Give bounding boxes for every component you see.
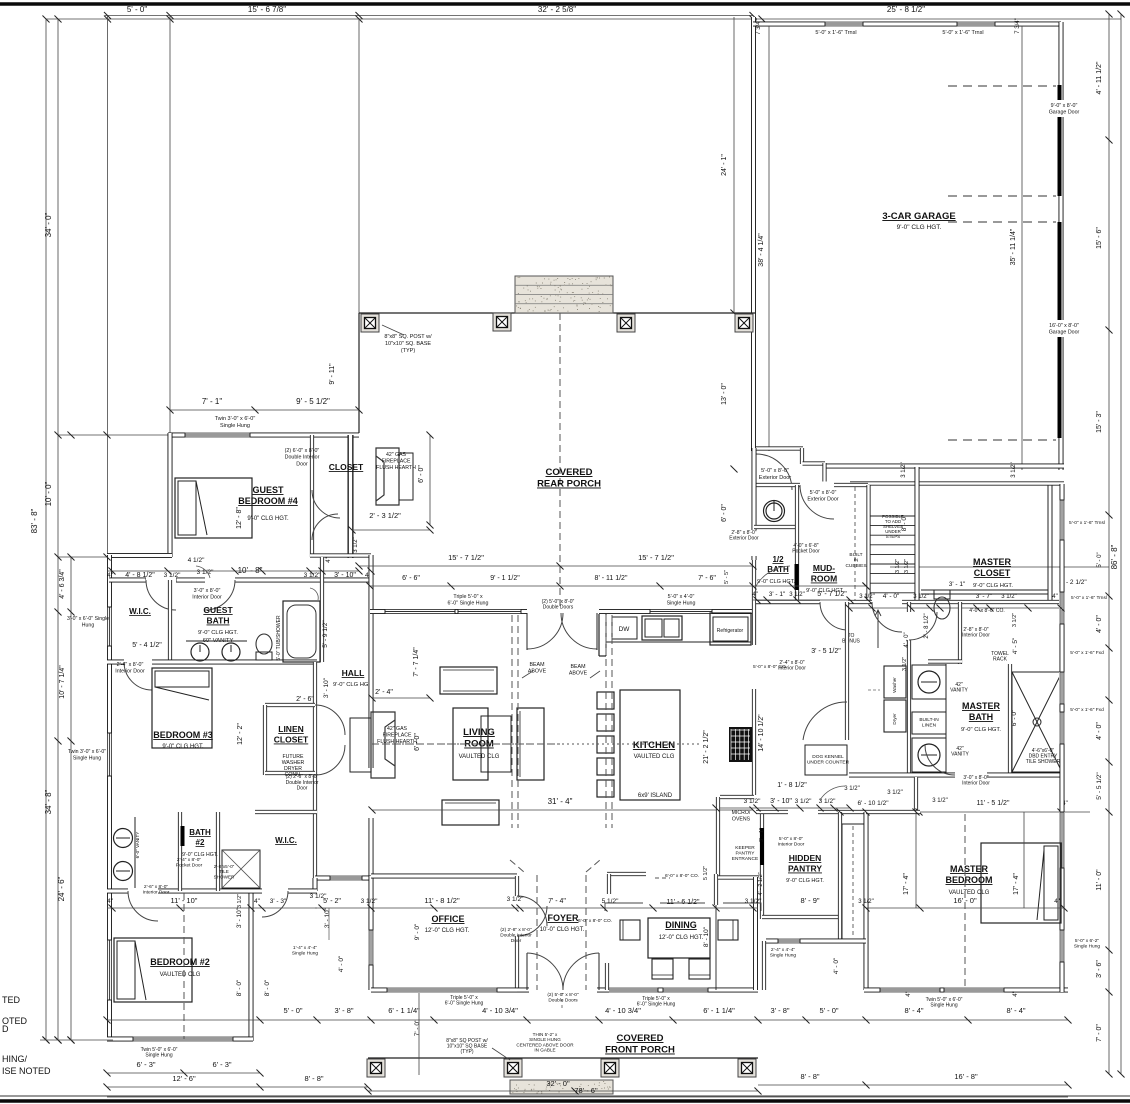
svg-text:3 1/2": 3 1/2" [164,572,181,579]
svg-text:Exterior Door: Exterior Door [807,497,838,503]
svg-text:12'-0" CLG HGT.: 12'-0" CLG HGT. [659,935,704,941]
svg-text:7' - 0": 7' - 0" [414,1019,421,1036]
svg-text:ABOVE: ABOVE [528,669,547,675]
svg-text:5'-0" x 1'-6" Trnsl: 5'-0" x 1'-6" Trnsl [815,30,856,36]
svg-text:Single Hung: Single Hung [145,1053,172,1059]
svg-text:31' - 4": 31' - 4" [548,797,573,806]
svg-text:TED: TED [2,995,21,1005]
svg-text:5'-0" x 4'-0": 5'-0" x 4'-0" [668,594,695,600]
svg-text:6' - 1 1/4": 6' - 1 1/4" [703,1006,735,1015]
svg-text:4": 4" [752,592,757,598]
svg-text:Exterior Door: Exterior Door [759,475,792,481]
svg-text:6' - 0": 6' - 0" [721,504,728,522]
svg-text:2'-4" x 8'-0": 2'-4" x 8'-0" [117,662,144,668]
svg-text:8' - 0": 8' - 0" [264,979,271,996]
svg-text:Refrigerator: Refrigerator [717,628,744,634]
svg-text:4' - 10 3/4": 4' - 10 3/4" [605,1006,641,1015]
svg-text:BONUS: BONUS [842,639,860,645]
svg-text:FIREPLACE: FIREPLACE [382,459,411,465]
svg-text:17' - 4": 17' - 4" [903,873,910,895]
svg-text:3 1/2": 3 1/2" [795,798,812,805]
svg-text:9'-0" CLG HGT.: 9'-0" CLG HGT. [333,682,373,688]
svg-text:1'-4" x 4'-4": 1'-4" x 4'-4" [293,945,317,951]
svg-text:5'-0" x 8'-0": 5'-0" x 8'-0" [779,836,803,842]
svg-text:4": 4" [1054,899,1059,905]
svg-text:6'-0" Single Hung: 6'-0" Single Hung [445,1001,484,1007]
svg-text:3'-0" x 6'-0" Single: 3'-0" x 6'-0" Single [67,616,109,622]
svg-text:5' - 4 1/2": 5' - 4 1/2" [132,642,162,649]
svg-text:4' - 0": 4' - 0" [904,632,910,647]
svg-text:Interior Door: Interior Door [778,841,805,847]
svg-text:32' - 0": 32' - 0" [546,1079,570,1088]
svg-text:3 1/2": 3 1/2" [895,559,901,573]
svg-text:4": 4" [107,898,114,905]
svg-text:CUBBIES: CUBBIES [845,563,866,569]
svg-text:5'-0" x 6'-2": 5'-0" x 6'-2" [1075,938,1099,944]
svg-text:12'-0" CLG HGT.: 12'-0" CLG HGT. [425,928,470,934]
svg-text:16'-0" x 8'-0": 16'-0" x 8'-0" [1049,323,1079,329]
svg-text:4": 4" [1052,594,1057,600]
svg-text:Garage Door: Garage Door [1049,330,1080,336]
svg-text:9' - 5 1/2": 9' - 5 1/2" [296,397,330,406]
svg-text:4": 4" [1013,991,1019,996]
svg-text:3 1/2": 3 1/2" [887,790,902,796]
svg-text:GUEST: GUEST [203,605,233,615]
svg-text:6'-0" Single Hung: 6'-0" Single Hung [637,1002,676,1008]
svg-text:8' - 0": 8' - 0" [236,979,243,996]
svg-text:8' - 10": 8' - 10" [703,926,710,947]
svg-text:ISE NOTED: ISE NOTED [2,1066,51,1076]
svg-text:5 1/2": 5 1/2" [602,898,619,905]
svg-text:9'-0" CLG HGT.: 9'-0" CLG HGT. [973,583,1013,589]
svg-text:Single Hung: Single Hung [1074,943,1100,949]
svg-text:9' - 11": 9' - 11" [329,363,336,385]
svg-text:4' - 0": 4' - 0" [338,955,345,972]
svg-text:Washer: Washer [892,677,897,693]
svg-text:6x9' ISLAND: 6x9' ISLAND [638,793,673,799]
svg-text:8' - 0": 8' - 0" [901,514,908,531]
svg-text:32' - 2 5/8": 32' - 2 5/8" [538,5,576,14]
svg-text:3' - 7": 3' - 7" [976,593,993,600]
svg-text:KEEPER: KEEPER [735,845,755,851]
svg-text:UNDER COUNTER: UNDER COUNTER [807,759,850,765]
svg-text:15' - 3": 15' - 3" [1096,411,1103,433]
svg-text:5' - 0": 5' - 0" [127,5,148,14]
svg-text:3' - 6": 3' - 6" [1096,960,1103,978]
svg-text:3 1/2": 3 1/2" [745,898,762,905]
svg-text:VAULTED CLG: VAULTED CLG [634,754,675,760]
svg-text:8' - 4": 8' - 4" [1006,1006,1025,1015]
svg-text:COVERED: COVERED [546,467,593,478]
svg-text:Twin 3'-0" x 6'-0": Twin 3'-0" x 6'-0" [68,749,106,755]
svg-text:2'-4" x 4'-4": 2'-4" x 4'-4" [771,947,795,953]
svg-text:12' - 8": 12' - 8" [236,507,243,529]
svg-text:SHOWER: SHOWER [214,874,235,879]
svg-text:3 1/2": 3 1/2" [819,798,836,805]
svg-text:11' - 8 1/2": 11' - 8 1/2" [424,896,460,905]
svg-text:3 1/2": 3 1/2" [361,898,378,905]
svg-text:3' - 5 1/2": 3' - 5 1/2" [811,648,841,655]
svg-text:2' - 4": 2' - 4" [375,689,393,696]
svg-text:15' - 7 1/2": 15' - 7 1/2" [448,553,484,562]
svg-text:HALL: HALL [342,668,365,678]
svg-text:5' - 2": 5' - 2" [323,898,341,905]
svg-text:9'-0" x 8'-0": 9'-0" x 8'-0" [1051,103,1078,109]
svg-text:Triple 5'-0" x: Triple 5'-0" x [453,594,483,600]
svg-text:(2) 2'-8" x 8'-0": (2) 2'-8" x 8'-0" [500,927,532,933]
svg-text:Double Doors: Double Doors [543,605,574,611]
svg-text:11' - 5 1/2": 11' - 5 1/2" [977,800,1010,807]
svg-text:4' - 11 1/2": 4' - 11 1/2" [1096,61,1103,94]
svg-text:7' - 4": 7' - 4" [548,898,566,905]
svg-text:W.I.C.: W.I.C. [129,607,151,616]
svg-text:7' - 6": 7' - 6" [698,575,716,582]
svg-text:3' - 8": 3' - 8" [334,1006,353,1015]
svg-text:BEDROOM: BEDROOM [946,875,993,885]
svg-text:BUILT: BUILT [849,552,862,558]
svg-text:MASTER: MASTER [962,701,1001,711]
svg-text:8' - 9": 8' - 9" [800,896,819,905]
svg-text:Twin 3'-0" x 6'-0": Twin 3'-0" x 6'-0" [215,416,256,422]
svg-text:ABOVE: ABOVE [569,671,588,677]
svg-text:FOYER: FOYER [547,913,579,923]
svg-text:3'-0" x 8'-0": 3'-0" x 8'-0" [194,588,221,594]
svg-text:PANTRY: PANTRY [735,850,755,856]
svg-text:9'-0" CLG HGT.: 9'-0" CLG HGT. [198,630,238,636]
svg-text:8' - 4": 8' - 4" [904,1006,923,1015]
svg-text:5'-0" x 1'-6" Trnsl: 5'-0" x 1'-6" Trnsl [942,30,983,36]
svg-text:12' - 2": 12' - 2" [237,723,244,745]
svg-text:Garage Door: Garage Door [1049,110,1080,116]
svg-text:Hung: Hung [82,623,95,629]
svg-text:10"x10" SQ. BASE: 10"x10" SQ. BASE [385,341,431,347]
svg-text:(TYP): (TYP) [401,348,416,354]
svg-text:#2: #2 [196,838,205,847]
svg-text:VANITY: VANITY [951,752,969,758]
svg-text:OVENS: OVENS [732,817,751,823]
svg-text:5'-0" x 8'-0" CO.: 5'-0" x 8'-0" CO. [753,664,787,670]
svg-text:15' - 7 1/2": 15' - 7 1/2" [638,553,674,562]
svg-text:BUILT-IN: BUILT-IN [919,717,939,723]
svg-text:BATH: BATH [207,616,230,626]
svg-text:35' - 11 1/4": 35' - 11 1/4" [1010,228,1017,265]
svg-text:5' - 5 1/2": 5' - 5 1/2" [1096,772,1103,800]
svg-text:5' - 0": 5' - 0" [819,1006,838,1015]
svg-text:3' - 1": 3' - 1" [759,828,765,842]
svg-text:4": 4" [107,572,114,579]
svg-text:3 1/2": 3 1/2" [858,899,873,905]
svg-text:6' - 0": 6' - 0" [414,733,421,751]
svg-text:FRONT PORCH: FRONT PORCH [605,1045,675,1056]
svg-text:16' - 8": 16' - 8" [954,1072,978,1081]
svg-text:4": 4" [906,991,912,996]
svg-text:4": 4" [254,898,261,905]
svg-text:DW: DW [619,626,631,633]
svg-text:42" GAS: 42" GAS [386,452,407,458]
svg-text:4' - 0": 4' - 0" [1096,722,1103,740]
svg-text:6' - 6": 6' - 6" [402,575,420,582]
svg-text:11' - 0": 11' - 0" [1096,869,1103,891]
svg-text:4' - 10 3/4": 4' - 10 3/4" [482,1006,518,1015]
svg-text:Interior Door: Interior Door [143,889,170,895]
svg-text:IN GABLE: IN GABLE [534,1048,555,1053]
svg-text:9'-0" CLG HGT.: 9'-0" CLG HGT. [786,878,824,884]
svg-text:Pocket Door: Pocket Door [792,549,820,555]
svg-text:3 1/2": 3 1/2" [844,786,859,792]
svg-text:25' - 8 1/2": 25' - 8 1/2" [887,5,925,14]
svg-text:8' - 8": 8' - 8" [304,1074,323,1083]
svg-text:3' - 10": 3' - 10" [770,798,792,805]
svg-text:FLUSH HEARTH: FLUSH HEARTH [376,465,416,471]
svg-text:3 1/2": 3 1/2" [913,594,928,600]
svg-text:4' - 0": 4' - 0" [833,957,840,974]
svg-text:HIDDEN: HIDDEN [789,853,822,863]
svg-text:GUEST: GUEST [252,485,284,495]
svg-text:11' - 6 1/2": 11' - 6 1/2" [667,899,700,906]
svg-text:5 1/2": 5 1/2" [703,866,709,880]
svg-text:3-CAR GARAGE: 3-CAR GARAGE [882,211,955,222]
svg-text:7 3/4": 7 3/4" [1015,18,1021,33]
svg-text:3 1/2": 3 1/2" [507,896,524,903]
svg-text:BEDROOM #4: BEDROOM #4 [238,496,298,506]
svg-text:5' - 7 1/2": 5' - 7 1/2" [817,591,847,598]
svg-text:10'-0" CLG HGT.: 10'-0" CLG HGT. [540,927,585,933]
svg-text:3 1/2": 3 1/2" [904,559,910,573]
svg-text:Interior Door: Interior Door [962,781,990,787]
svg-text:3' - 1": 3' - 1" [769,591,786,598]
svg-text:Door: Door [297,786,308,792]
svg-text:3' - 1": 3' - 1" [949,581,966,588]
svg-text:BEDROOM #3: BEDROOM #3 [153,730,213,740]
svg-text:Double Interior: Double Interior [285,455,320,461]
svg-text:LIVING: LIVING [463,727,495,738]
svg-text:TILE SHOWER: TILE SHOWER [1026,759,1061,765]
svg-text:1/2: 1/2 [772,555,784,564]
svg-text:15' - 6": 15' - 6" [1096,227,1103,249]
svg-text:DINING: DINING [665,920,697,930]
svg-text:2' - 3 1/2": 2' - 3 1/2" [369,511,401,520]
svg-text:VAULTED CLG: VAULTED CLG [459,754,500,760]
svg-text:(TYP): (TYP) [460,1049,473,1055]
svg-text:Dryer: Dryer [892,713,897,725]
svg-text:W.I.C.: W.I.C. [275,836,297,845]
svg-text:2'-4" x 8'-0": 2'-4" x 8'-0" [177,857,201,863]
svg-text:Pocket Door: Pocket Door [176,862,203,868]
svg-text:6' - 3": 6' - 3" [136,1060,155,1069]
svg-text:4' - 8 1/2": 4' - 8 1/2" [125,572,155,579]
svg-text:BEAM: BEAM [570,664,585,670]
svg-text:13' - 0": 13' - 0" [721,383,728,405]
svg-text:4' - 2 1/2": 4' - 2 1/2" [758,872,764,895]
svg-text:BATH: BATH [969,712,993,722]
svg-text:5'-0" TUB/SHOWER: 5'-0" TUB/SHOWER [276,615,282,661]
svg-text:5'-0" x 8'-0": 5'-0" x 8'-0" [810,490,837,496]
svg-text:34' - 8": 34' - 8" [44,789,53,814]
svg-text:3 1/2": 3 1/2" [1012,613,1018,627]
svg-text:3 1/2": 3 1/2" [901,462,907,477]
svg-text:8' - 8": 8' - 8" [800,1072,819,1081]
svg-text:FIREPLACE: FIREPLACE [383,733,412,739]
svg-text:3' - 10": 3' - 10" [334,572,356,579]
svg-text:9'-0" CLG HGT.: 9'-0" CLG HGT. [247,516,289,522]
svg-text:38' - 4 1/4": 38' - 4 1/4" [758,233,765,267]
svg-text:3 1/2": 3 1/2" [789,592,804,598]
svg-text:86' - 8": 86' - 8" [1110,544,1119,569]
svg-text:RACK: RACK [993,657,1008,663]
svg-text:Single Hung: Single Hung [770,952,796,958]
svg-text:1' - 8 1/2": 1' - 8 1/2" [777,782,807,789]
svg-text:8"x8" SQ. POST w/: 8"x8" SQ. POST w/ [384,334,432,340]
svg-text:3 1/2": 3 1/2" [902,657,908,671]
svg-text:ROOM: ROOM [811,574,837,584]
svg-text:4' - 0": 4' - 0" [883,593,900,600]
svg-text:9'-0" CLG HGT.: 9'-0" CLG HGT. [897,224,942,231]
svg-text:MASTER: MASTER [973,557,1012,567]
svg-text:6' - 0": 6' - 0" [418,465,425,483]
svg-text:Interior Door: Interior Door [192,595,222,601]
svg-text:BEAM: BEAM [529,662,544,668]
svg-text:3' - 10": 3' - 10" [236,907,243,928]
svg-text:9' - 0": 9' - 0" [414,923,421,940]
svg-text:5'-0" x 8'-0": 5'-0" x 8'-0" [761,468,789,474]
svg-text:42" GAS: 42" GAS [387,726,408,732]
svg-text:4' - 6 3/4": 4' - 6 3/4" [59,569,66,599]
svg-text:KITCHEN: KITCHEN [633,740,675,751]
svg-text:HING/: HING/ [2,1054,28,1064]
svg-text:COVERED: COVERED [617,1033,664,1044]
svg-text:CLOSET: CLOSET [329,462,364,472]
svg-text:6' - 10 1/2": 6' - 10 1/2" [857,800,889,807]
svg-text:Exterior Door: Exterior Door [729,536,759,542]
svg-text:(2) 5'-0" x 8'-0": (2) 5'-0" x 8'-0" [547,992,579,998]
svg-text:IN: IN [854,557,859,563]
svg-text:D: D [2,1024,9,1034]
svg-text:6'-0" VANITY: 6'-0" VANITY [135,832,140,859]
svg-text:5'-0" x 1'-6" Trnsl: 5'-0" x 1'-6" Trnsl [1071,595,1107,601]
svg-text:LINEN: LINEN [278,724,304,734]
svg-text:7' - 1": 7' - 1" [202,397,223,406]
svg-text:24' - 1": 24' - 1" [721,154,728,176]
svg-text:83' - 8": 83' - 8" [30,508,39,533]
svg-text:LINEN: LINEN [922,722,937,728]
svg-text:5' - 0": 5' - 0" [1097,552,1103,567]
svg-text:CLOSET: CLOSET [974,568,1011,578]
svg-text:Interior Door: Interior Door [962,633,990,639]
svg-text:6'-0" x 8'-0" CO.: 6'-0" x 8'-0" CO. [578,918,612,924]
svg-text:7' - 0": 7' - 0" [1096,1024,1103,1042]
svg-text:4'-0" x 8'-0" CO.: 4'-0" x 8'-0" CO. [969,608,1004,614]
svg-text:MICRO/: MICRO/ [732,810,751,816]
svg-text:6'-0" Single Hung: 6'-0" Single Hung [448,601,489,607]
svg-text:21' - 2 1/2": 21' - 2 1/2" [703,730,710,764]
svg-text:ENTRANCE: ENTRANCE [732,856,758,862]
svg-text:78' - 6": 78' - 6" [574,1086,598,1095]
svg-text:5' - 5": 5' - 5" [724,570,730,584]
svg-text:REAR PORCH: REAR PORCH [537,479,601,490]
svg-text:3 1/2": 3 1/2" [1011,462,1017,477]
svg-text:STEPS: STEPS [886,534,900,539]
svg-text:BATH: BATH [189,828,211,837]
svg-text:2'-6" x 8'-0": 2'-6" x 8'-0" [144,884,168,890]
svg-text:4' - 0": 4' - 0" [1096,615,1103,633]
svg-text:3 1/2": 3 1/2" [353,537,359,552]
svg-text:BEDROOM #2: BEDROOM #2 [150,957,210,967]
svg-text:24' - 6": 24' - 6" [57,876,66,901]
svg-text:10' - 0": 10' - 0" [44,481,53,506]
svg-text:3 1/2": 3 1/2" [932,798,947,804]
svg-text:Interior Door: Interior Door [115,669,145,675]
svg-text:3 1/2": 3 1/2" [1001,594,1016,600]
svg-text:2' - 6": 2' - 6" [296,696,314,703]
svg-text:3 1/2": 3 1/2" [237,894,243,908]
svg-text:Single Hung: Single Hung [73,756,101,762]
svg-text:3' - 8": 3' - 8" [770,1006,789,1015]
svg-text:Single Hung: Single Hung [292,950,318,956]
svg-text:Single Hung: Single Hung [930,1003,957,1009]
svg-text:14' - 10 1/2": 14' - 10 1/2" [758,714,765,752]
svg-text:6' - 1 1/4": 6' - 1 1/4" [388,1006,420,1015]
svg-text:8' - 11 1/2": 8' - 11 1/2" [595,575,628,582]
svg-text:CLOSET: CLOSET [274,735,309,745]
svg-text:9'-0" CLG HGT.: 9'-0" CLG HGT. [961,727,1001,733]
svg-text:17' - 4": 17' - 4" [1013,873,1020,895]
svg-text:MASTER: MASTER [950,864,989,874]
svg-text:3' - 10": 3' - 10" [323,677,330,698]
svg-text:5' - 9 1/2": 5' - 9 1/2" [322,620,329,648]
svg-text:Single Hung: Single Hung [667,601,696,607]
svg-text:DOG KENNEL: DOG KENNEL [812,754,844,760]
svg-text:7' - 7 1/4": 7' - 7 1/4" [413,647,420,677]
svg-text:Double Interior: Double Interior [500,932,532,938]
svg-text:5'-0" x 1'-6" Fxd: 5'-0" x 1'-6" Fxd [1070,707,1104,713]
svg-text:5'-0" x 1'-6" Fxd: 5'-0" x 1'-6" Fxd [1070,650,1104,656]
svg-text:4": 4" [326,557,332,562]
svg-text:9'-0" CLG HGT.: 9'-0" CLG HGT. [162,744,204,750]
svg-text:34' - 0": 34' - 0" [44,212,53,237]
svg-text:VANITY: VANITY [950,688,968,694]
svg-text:OFFICE: OFFICE [432,914,465,924]
svg-text:10' - 7 1/4": 10' - 7 1/4" [59,665,66,699]
svg-text:7 3/4": 7 3/4" [756,19,762,34]
svg-text:12' - 6": 12' - 6" [172,1074,196,1083]
svg-text:5' - 0": 5' - 0" [283,1006,302,1015]
svg-text:2' - 8 1/2": 2' - 8 1/2" [924,613,930,638]
svg-text:VAULTED CLG: VAULTED CLG [160,972,201,978]
svg-text:4 1/2": 4 1/2" [188,557,205,564]
svg-text:Double Doors: Double Doors [548,997,578,1003]
svg-text:6' - 3": 6' - 3" [212,1060,231,1069]
svg-text:(2) 6'-0" x 8'-0": (2) 6'-0" x 8'-0" [285,448,320,454]
svg-text:9' - 1 1/2": 9' - 1 1/2" [490,575,520,582]
svg-text:5'-0" x 1'-6" Trnsl: 5'-0" x 1'-6" Trnsl [1069,520,1105,526]
svg-text:Single Hung: Single Hung [220,423,250,429]
svg-text:Door: Door [511,938,522,944]
svg-text:PANTRY: PANTRY [788,864,822,874]
svg-text:4' - 5": 4' - 5" [1012,637,1019,654]
svg-text:15' - 6 7/8": 15' - 6 7/8" [248,5,286,14]
svg-text:MUD-: MUD- [813,563,835,573]
svg-text:Door: Door [296,461,308,467]
svg-text:6'-0" x 8'-0" CO.: 6'-0" x 8'-0" CO. [665,873,699,879]
